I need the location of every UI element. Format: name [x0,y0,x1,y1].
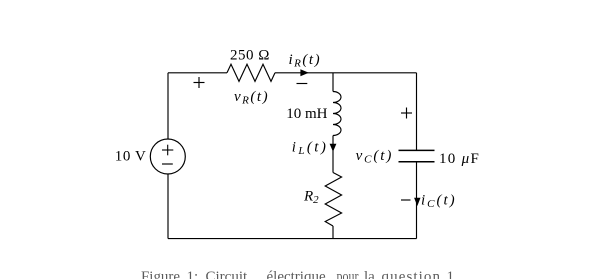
svg-text:250 Ω: 250 Ω [230,47,270,63]
voltage source minus [162,163,173,165]
voltage source V1 circle [150,139,185,174]
svg-text:vC(t): vC(t) [356,148,394,166]
svg-text:10 V: 10 V [115,149,147,165]
wire right upper [416,73,418,151]
iL current arrow [330,144,337,152]
svg-text:10 mH: 10 mH [286,106,327,122]
voltage source plus [162,145,173,156]
vR polarity minus [297,83,308,85]
svg-text:iC(t): iC(t) [421,193,457,211]
wire right lower [416,162,418,239]
svg-text:iR(t): iR(t) [289,52,322,70]
wire bottom [168,238,417,240]
wire left lower [167,174,169,239]
wire top-right segment [275,72,417,74]
wire middle mid [332,136,334,173]
inductor L 10 mH coil [333,92,341,136]
svg-text:Circuit: Circuit [206,269,248,279]
svg-text:iL(t): iL(t) [292,140,328,158]
svg-text:électrique: électrique [267,269,326,279]
svg-text:vR(t): vR(t) [234,89,269,107]
capacitor C bottom plate [399,161,435,163]
svg-text:Figure: Figure [141,269,180,279]
wire middle upper [332,73,334,92]
svg-text:R2: R2 [303,189,319,207]
iC current arrow [414,198,420,206]
svg-text:pour: pour [337,269,359,279]
svg-text:1: 1 [447,269,455,279]
vR polarity plus [194,77,205,88]
wire left upper [167,73,169,139]
resistor R2 zigzag [325,173,341,227]
svg-text:la: la [364,269,375,279]
capacitor C top plate [399,149,435,151]
iR current arrow [300,69,308,76]
vC polarity plus [401,108,412,119]
svg-text:question: question [382,269,442,279]
wire top-left segment [168,72,227,74]
resistor R 250 ohm zigzag [227,64,275,81]
svg-text:1:: 1: [187,269,199,279]
svg-text:10 μF: 10 μF [439,151,480,167]
wire middle lower [332,226,334,239]
vC polarity minus [401,199,411,201]
caption Figure 1 [141,269,454,279]
